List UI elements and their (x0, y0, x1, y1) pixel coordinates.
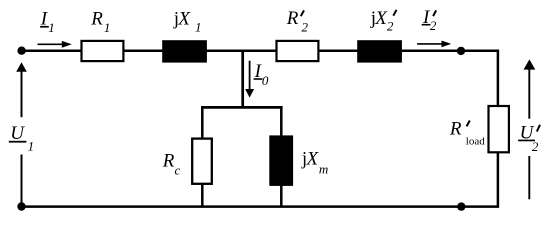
node A primary top terminal (17, 47, 25, 55)
voltage arrow U1 (16, 62, 27, 72)
svg-text:1: 1 (48, 20, 55, 35)
inductor jX'2 (357, 40, 402, 62)
resistor R'2 (277, 41, 319, 61)
resistor Rc (192, 139, 212, 184)
svg-text:2: 2 (387, 18, 394, 33)
node B secondary top terminal (457, 47, 465, 55)
resistor R1 (82, 41, 124, 61)
current arrow I0 (249, 61, 251, 90)
svg-text:X: X (177, 8, 191, 29)
svg-text:2: 2 (302, 20, 309, 35)
svg-text:U: U (10, 123, 25, 144)
svg-text:1: 1 (28, 138, 34, 153)
svg-text:1: 1 (195, 20, 202, 35)
svg-text:R: R (162, 150, 175, 171)
svg-text:X: X (306, 149, 320, 170)
svg-text:2: 2 (532, 139, 539, 154)
current arrow I1 (38, 43, 64, 45)
svg-text:c: c (175, 163, 181, 178)
wire center shunt branch vertical from top rail (241, 51, 244, 108)
svg-text:1: 1 (104, 20, 111, 35)
svg-text:load: load (466, 136, 485, 148)
current arrow I2' (417, 43, 442, 45)
wire jXm branch vertical lead (280, 106, 283, 207)
svg-text:m: m (319, 162, 328, 177)
inductor jX1 (162, 40, 207, 62)
svg-text:R: R (90, 8, 103, 29)
inductor jXm (269, 135, 293, 186)
voltage arrow U2' (524, 59, 536, 69)
node C primary bottom terminal (17, 202, 25, 210)
wire top rail from left terminal to right corner, down to load (22, 51, 498, 207)
wire horizontal bar of shunt T (201, 106, 283, 109)
svg-text:R: R (449, 119, 462, 140)
svg-text:0: 0 (262, 73, 269, 88)
wire Rc branch vertical lead (201, 106, 204, 207)
svg-text:2: 2 (430, 18, 437, 33)
node D secondary bottom terminal (457, 202, 465, 210)
resistor R'load (489, 106, 509, 152)
svg-text:R: R (286, 8, 299, 29)
